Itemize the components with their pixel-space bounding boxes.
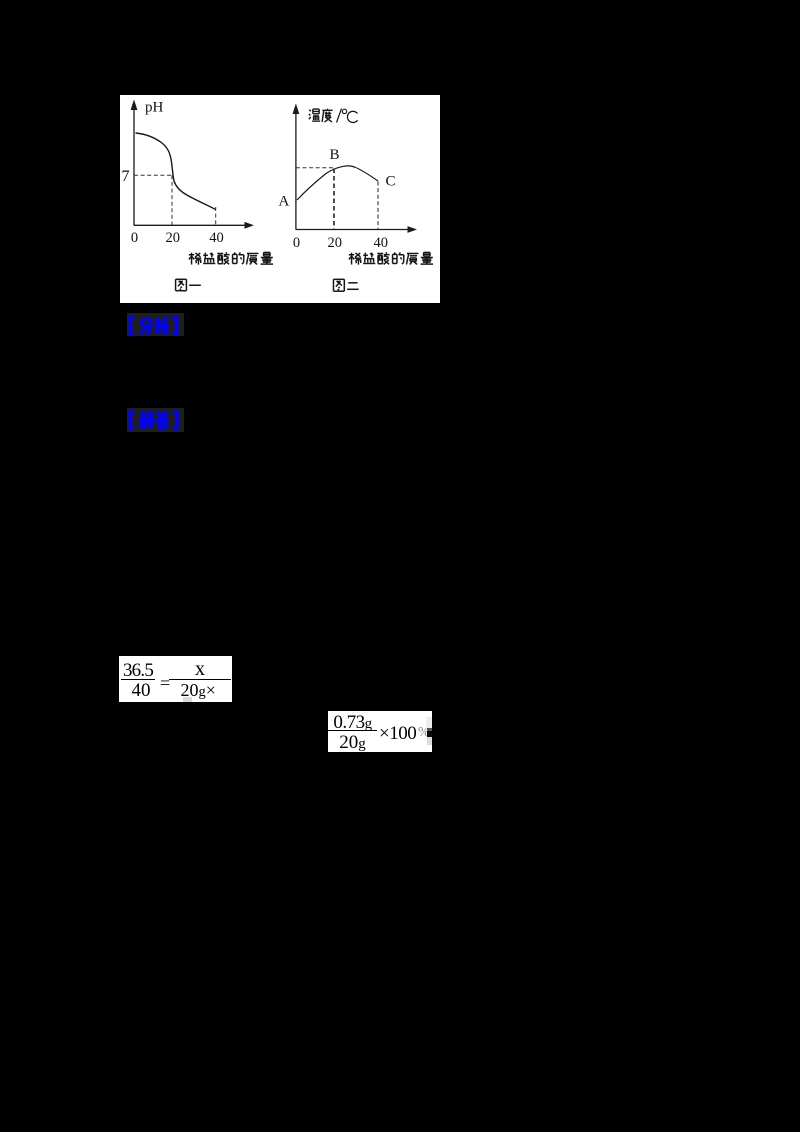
svg-text:0: 0 bbox=[293, 235, 300, 251]
math box: 0.73g/20g x 100% bbox=[328, 711, 432, 752]
chart1 caption (figure 1) bbox=[176, 279, 201, 290]
chart2 x-axis label (dilute hydrochloric acid mass) bbox=[349, 252, 433, 264]
chart1 dashed vertical at 40 bbox=[215, 207, 217, 225]
chart1 dashed vertical at 20 bbox=[171, 175, 173, 225]
chart2 caption (figure 2) bbox=[333, 279, 358, 291]
chart2 x tick labels 0 20 40 bbox=[293, 235, 388, 251]
svg-text:C: C bbox=[386, 174, 396, 190]
chart1 pH curve bbox=[136, 133, 216, 210]
chart2 dashed vertical at 20 bbox=[333, 169, 335, 230]
svg-text:20: 20 bbox=[327, 235, 342, 251]
svg-text:40: 40 bbox=[374, 235, 389, 251]
svg-text:0: 0 bbox=[131, 230, 138, 246]
svg-text:B: B bbox=[329, 147, 339, 163]
chart2 dashed horizontal to B bbox=[296, 167, 334, 169]
math box: 36.5/40 = x/(20g*4%) bbox=[119, 656, 232, 702]
figure box: two chemistry graphs bbox=[120, 95, 440, 303]
chart1 dashed line pH=7 bbox=[134, 174, 172, 176]
blue heading [analysis] bbox=[127, 313, 184, 336]
svg-text:40: 40 bbox=[209, 230, 224, 246]
chart2 temperature curve A-B-C bbox=[297, 166, 378, 200]
cursor block artifact bbox=[427, 728, 433, 731]
chart1 x-axis label (dilute hydrochloric acid mass) bbox=[189, 252, 273, 264]
chart2 dashed vertical at 40 bbox=[377, 182, 379, 230]
chart2 y-axis label (temperature C) bbox=[309, 109, 358, 123]
svg-text:20: 20 bbox=[166, 230, 181, 246]
chart1 y-axis bbox=[131, 100, 138, 226]
chart1 x-axis bbox=[134, 222, 254, 229]
svg-text:pH: pH bbox=[145, 100, 164, 116]
svg-text:A: A bbox=[279, 194, 290, 210]
chart2 x-axis bbox=[296, 226, 417, 233]
blue heading [answer] bbox=[127, 408, 184, 432]
chart1 x tick labels 0 20 40 bbox=[131, 230, 224, 246]
chart2 y-axis bbox=[293, 104, 300, 230]
svg-text:7: 7 bbox=[122, 168, 130, 185]
